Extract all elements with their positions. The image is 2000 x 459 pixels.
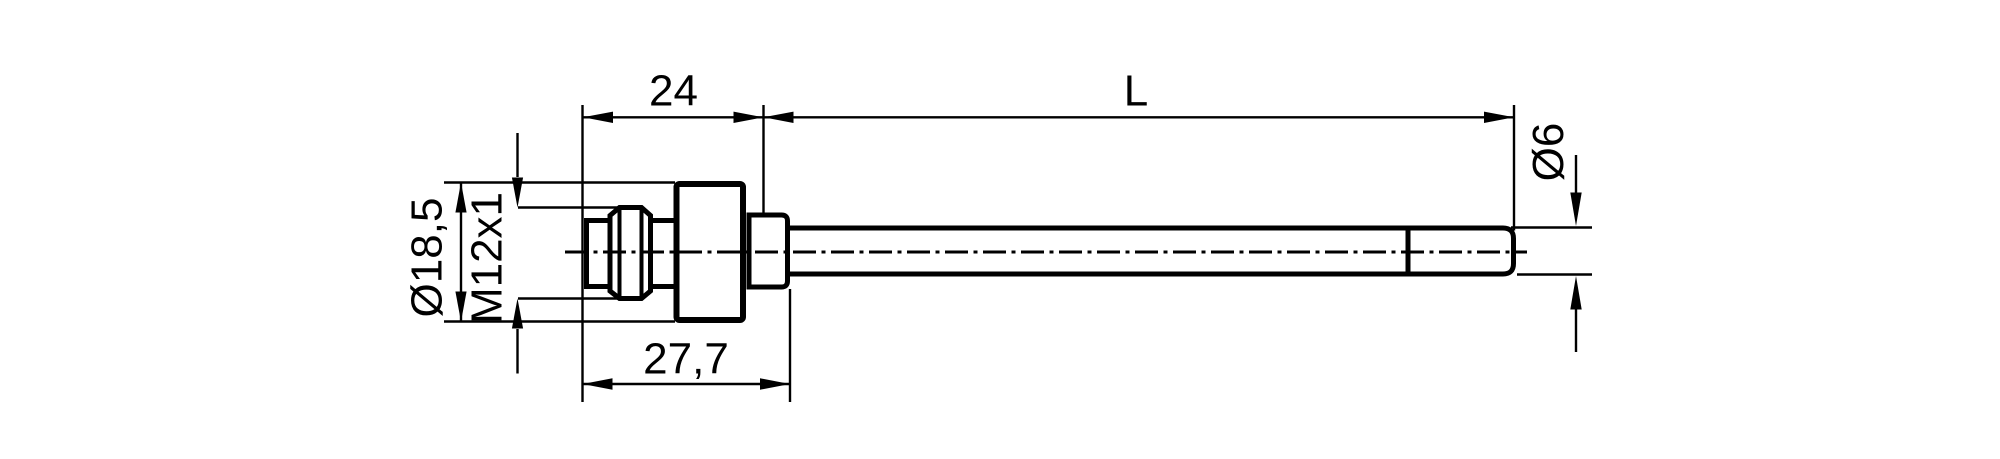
wire extension line 27,7 right — [789, 289, 791, 402]
dimension diameter 18,5 — [460, 183, 462, 322]
probe tube — [788, 228, 1408, 274]
wire extension line mid (24 right / L left) — [762, 105, 764, 213]
svg-text:Ø18,5: Ø18,5 — [403, 198, 452, 318]
wire extension lines diameter 18,5 — [444, 181, 675, 183]
connector barrel — [584, 219, 676, 290]
M12 thread ring — [610, 208, 651, 299]
dimension L — [764, 116, 1515, 118]
svg-text:M12x1: M12x1 — [463, 192, 512, 324]
centerline — [565, 251, 1527, 254]
svg-text:Ø6: Ø6 — [1524, 123, 1573, 182]
svg-text:27,7: 27,7 — [643, 335, 729, 384]
dimension 24 — [583, 116, 764, 118]
probe tip cap — [1407, 228, 1514, 274]
wire extension lines M12x1 — [518, 208, 619, 299]
tube tip separator — [1406, 226, 1411, 277]
dimension diameter 6 — [1575, 155, 1577, 352]
hex body — [677, 184, 744, 320]
step collar — [749, 215, 788, 287]
thread chamfer lines — [620, 209, 642, 297]
svg-text:24: 24 — [649, 67, 698, 116]
dimension M12x1 — [516, 133, 518, 374]
wire extension line right (L right) — [1513, 105, 1515, 231]
wire extension lines diameter 6 — [1511, 226, 1592, 228]
wire extension line left (24 / 27,7) — [581, 105, 583, 402]
dimension 27,7 — [583, 383, 791, 385]
svg-text:L: L — [1124, 67, 1148, 116]
